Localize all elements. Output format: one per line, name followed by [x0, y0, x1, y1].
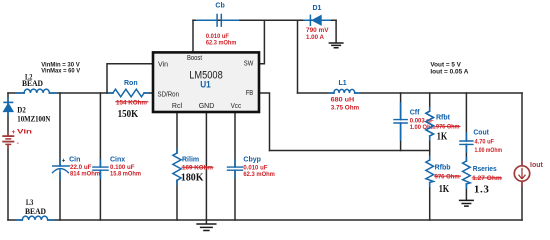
ground under Rseries — [459, 200, 474, 206]
svg-text:Cb: Cb — [215, 3, 224, 10]
wire Cin branch lower — [59, 173, 61, 220]
wire Rseries to ground — [465, 184, 467, 200]
svg-text:1.27 Ohm: 1.27 Ohm — [472, 175, 502, 182]
wire Rfbb lower — [429, 183, 431, 221]
current source Iout circle — [514, 166, 529, 181]
wire Cinx branch — [99, 93, 101, 167]
capacitor Cin leads — [59, 159, 61, 179]
label D1 — [306, 5, 329, 41]
wire Cff branch upper — [400, 93, 402, 120]
svg-text:1.00 mOhm: 1.00 mOhm — [475, 147, 503, 154]
wire main input — [8, 92, 153, 94]
svg-text:Iout = 0.05 A: Iout = 0.05 A — [430, 68, 468, 75]
label L2 — [22, 71, 43, 88]
svg-text:180K: 180K — [181, 172, 204, 184]
svg-text:976 Ohm: 976 Ohm — [435, 173, 460, 180]
svg-text:Rfbt: Rfbt — [436, 115, 451, 122]
diode D1 cathode bar — [309, 15, 311, 25]
resistor Ron leads — [109, 92, 149, 94]
wire Rilim lower — [176, 180, 178, 220]
wire GND pin — [205, 112, 207, 224]
label Rfbt — [436, 115, 461, 143]
wire bottom rail — [8, 219, 522, 221]
capacitor Cff leads — [400, 103, 402, 140]
resistor Rfbt zigzag overlay — [426, 111, 434, 136]
capacitor Cinx plates — [93, 167, 108, 170]
svg-text:FB: FB — [246, 90, 254, 97]
label L1 — [331, 80, 360, 111]
svg-text:Cin: Cin — [69, 156, 80, 163]
label Rseries — [472, 166, 502, 196]
svg-text:Vcc: Vcc — [231, 103, 242, 110]
current source Iout leads — [521, 161, 523, 187]
wire Cout branch upper — [465, 93, 467, 141]
svg-text:Rilim: Rilim — [182, 157, 199, 164]
wire boost top — [193, 19, 336, 21]
svg-text:1K: 1K — [437, 130, 448, 142]
svg-text:+: + — [62, 158, 66, 164]
resistor Rilim leads — [176, 149, 178, 185]
battery V1 plates — [2, 136, 14, 144]
label Ron — [115, 80, 148, 120]
wire Rfbt lower — [429, 136, 431, 151]
label Cout — [473, 130, 502, 154]
resistor Ron zigzag — [113, 89, 144, 97]
inductor L2 bumps — [24, 89, 49, 93]
wire SW riser — [259, 20, 264, 64]
inductor L1 leads — [329, 92, 360, 94]
svg-text:Rfbb: Rfbb — [435, 164, 451, 171]
inductor L2 leads — [16, 92, 57, 94]
label Rfbb — [434, 164, 461, 194]
svg-text:154 KOhm: 154 KOhm — [116, 99, 147, 106]
label D2 — [17, 104, 51, 123]
svg-text:15.8 mOhm: 15.8 mOhm — [110, 170, 141, 177]
svg-text:+: + — [12, 129, 16, 136]
label Vin source — [12, 129, 33, 147]
capacitor Cout plates — [460, 141, 473, 144]
svg-text:1.3: 1.3 — [474, 184, 490, 196]
inductor L3 leads — [16, 219, 54, 221]
svg-text:680 uH: 680 uH — [331, 96, 355, 103]
wire Vin pin riser — [107, 64, 153, 93]
inductor L3 bumps — [22, 216, 47, 220]
diode D2 cathode bar — [3, 101, 13, 103]
wire left branch lower (battery to rail) — [7, 144, 9, 220]
capacitor Cin top plate — [53, 165, 69, 167]
label Cin — [62, 156, 100, 177]
wire D1 ground drop — [335, 20, 337, 42]
capacitor Cb plates — [217, 15, 221, 27]
resistor Rfbb zigzag — [426, 160, 434, 183]
capacitor Cb leads — [197, 19, 239, 21]
svg-text:Cff: Cff — [410, 110, 420, 117]
svg-text:Boost: Boost — [187, 55, 202, 62]
capacitor Cin curved plate — [53, 169, 69, 173]
svg-text:VinMax = 60 V: VinMax = 60 V — [41, 68, 81, 75]
svg-text:BEAD: BEAD — [22, 78, 43, 88]
svg-text:3.75 Ohm: 3.75 Ohm — [331, 104, 360, 111]
svg-text:Vin: Vin — [158, 61, 168, 68]
svg-text:GND: GND — [199, 103, 215, 110]
resistor Rilim zigzag — [173, 153, 181, 180]
inductor L1 bumps — [334, 89, 355, 93]
current source Iout arrow — [519, 168, 526, 179]
wire right edge upper — [521, 93, 523, 166]
label Rilim — [181, 157, 214, 184]
wire Vcc pin upper — [234, 112, 236, 167]
svg-text:BEAD: BEAD — [25, 206, 46, 216]
resistor Rfbb leads — [429, 157, 431, 187]
ground under D1 — [329, 43, 344, 48]
wire right edge lower — [521, 181, 523, 220]
wire Cin branch — [59, 93, 61, 166]
wire Cff branch lower — [400, 123, 402, 151]
svg-text:62.3 mOhm: 62.3 mOhm — [243, 171, 275, 178]
capacitor Cout leads — [465, 133, 467, 152]
svg-text:Iout: Iout — [530, 162, 543, 169]
svg-text:4.70 uF: 4.70 uF — [475, 139, 495, 146]
resistor Rseries zigzag — [463, 161, 471, 184]
svg-text:SW: SW — [244, 60, 254, 67]
wire boost riser — [192, 20, 194, 52]
wire left branch upper (D2) — [7, 93, 9, 136]
wire output rail — [298, 92, 523, 94]
wire Cinx branch lower — [99, 170, 101, 220]
label Cinx — [110, 156, 141, 177]
capacitor Cff plates — [394, 120, 407, 123]
svg-text:814 mOhm: 814 mOhm — [70, 170, 100, 177]
diode D2 triangle — [3, 104, 13, 112]
svg-text:Vin: Vin — [17, 129, 32, 136]
wire Rcl pin upper — [176, 112, 178, 153]
battery V1 (Vin source) leads — [7, 132, 9, 150]
node annotation VinMin/VinMax — [41, 61, 81, 74]
svg-text:Ron: Ron — [124, 80, 138, 87]
svg-text:Rseries: Rseries — [473, 166, 497, 173]
label L3 — [25, 197, 46, 216]
wire Rfbt upper — [429, 93, 431, 111]
svg-text:169 KOhm: 169 KOhm — [182, 164, 213, 171]
node annotation Vout/Iout — [430, 62, 468, 76]
svg-text:150K: 150K — [118, 108, 139, 120]
capacitor Cbyp plates — [228, 167, 243, 170]
diode D1 triangle — [312, 16, 321, 26]
capacitor Cinx leads — [99, 160, 101, 178]
svg-text:Cout: Cout — [473, 130, 489, 137]
svg-text:Cinx: Cinx — [110, 156, 125, 163]
wire FB stub — [259, 93, 270, 151]
svg-text:62.3 mOhm: 62.3 mOhm — [206, 39, 237, 46]
wire FB net — [270, 150, 430, 152]
diode D2 leads — [7, 97, 9, 116]
wire Rfbb upper — [429, 151, 431, 161]
svg-text:1.00 A: 1.00 A — [306, 34, 324, 41]
wire switch node drop to L1 — [297, 20, 299, 93]
op-amp U1 LM5008 regulator box — [153, 52, 259, 112]
wire Cout to Rseries — [465, 144, 467, 161]
label Iout — [530, 162, 543, 169]
svg-text:U1: U1 — [200, 79, 211, 90]
svg-text:1K: 1K — [439, 183, 450, 195]
label Cbyp — [243, 157, 275, 179]
svg-text:Cbyp: Cbyp — [243, 157, 261, 164]
wire Cbyp lower — [234, 170, 236, 220]
svg-text:SD/Ron: SD/Ron — [158, 91, 180, 98]
svg-text:L1: L1 — [339, 80, 347, 87]
resistor Rseries leads — [465, 158, 467, 189]
diode D1 leads — [304, 19, 330, 21]
svg-text:-: - — [17, 140, 19, 147]
label Cb — [206, 3, 237, 47]
resistor Rfbt leads — [429, 108, 431, 141]
svg-text:D1: D1 — [313, 5, 322, 12]
resistor Rfbt zigzag — [426, 111, 434, 136]
svg-text:10MZ100N: 10MZ100N — [17, 113, 51, 123]
ground main GND — [196, 224, 216, 231]
svg-text:Rcl: Rcl — [172, 103, 183, 110]
label Cff — [410, 110, 436, 132]
capacitor Cbyp leads — [234, 160, 236, 178]
